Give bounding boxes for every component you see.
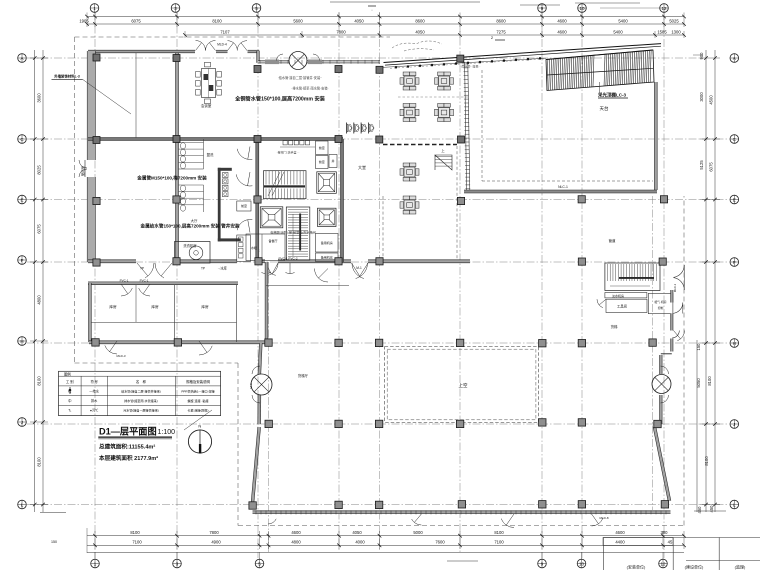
interior step line in hall (266, 285, 349, 287)
turnstile gates (347, 123, 375, 134)
leader from legend to plan (184, 410, 212, 430)
svg-text:工具间: 工具间 (617, 304, 628, 309)
urinal fixtures (223, 173, 229, 197)
svg-text:M-3: M-3 (249, 383, 253, 388)
svg-text:4600: 4600 (557, 30, 567, 35)
svg-text:8025: 8025 (37, 165, 42, 175)
svg-text:总建筑面积:11155.4m²: 总建筑面积:11155.4m² (99, 442, 155, 450)
svg-text:大厅: 大厅 (191, 218, 198, 223)
canopy slanted roof edge lines (380, 44, 661, 68)
svg-text:7100: 7100 (132, 540, 142, 545)
doors in bottom curtain wall (268, 514, 609, 528)
lower hall: right slanted wall (653, 427, 671, 502)
svg-text:M-1: M-1 (356, 266, 362, 270)
svg-text:规格及安装说明: 规格及安装说明 (186, 379, 210, 384)
wall: y=262 south wall of upper block (88, 260, 470, 263)
dining west dashed boundary (382, 196, 384, 260)
storage rooms block walls (88, 282, 265, 344)
right stair room (605, 263, 660, 291)
svg-text:PVC-1 PVC-2: PVC-1 PVC-2 (278, 257, 297, 261)
svg-text:12: 12 (660, 562, 666, 567)
small stage steps (435, 148, 452, 170)
svg-text:10: 10 (579, 562, 585, 567)
glass wall: dining east face with mullions (463, 62, 470, 190)
core toilet fixtures on north wall (280, 141, 315, 148)
svg-text:7600: 7600 (435, 540, 445, 545)
svg-text:前室: 前室 (319, 145, 325, 150)
svg-text:采光顶棚LC-3: 采光顶棚LC-3 (597, 92, 626, 99)
stray sheet lines at top edge (330, 2, 660, 12)
svg-text:暖气·机房: 暖气·机房 (654, 300, 666, 304)
svg-text:·给水管·接自二层·接管井·安装··: ·给水管·接自二层·接管井·安装·· (278, 75, 323, 80)
svg-text:5000: 5000 (413, 530, 423, 535)
svg-text:10: 10 (579, 6, 585, 11)
svg-text:(安装单位): (安装单位) (627, 564, 646, 570)
svg-text:6075: 6075 (131, 18, 141, 23)
grid bubbles: bottom (91, 552, 668, 568)
svg-text:8100: 8100 (37, 457, 42, 467)
svg-text:库房: 库房 (109, 304, 117, 309)
svg-text:4600: 4600 (557, 18, 567, 23)
svg-text:排水: 排水 (91, 398, 98, 403)
columns: row L y=504 (249, 501, 669, 510)
svg-text:·排水管·接至·雨水管·安装·: ·排水管·接至·雨水管·安装· (291, 86, 328, 91)
svg-text:7800: 7800 (209, 530, 219, 535)
svg-text:1585: 1585 (657, 30, 667, 35)
planting dashed arcs above canopy (392, 41, 442, 51)
legend table (59, 371, 221, 415)
svg-text:污水管(接自一层接管接来): 污水管(接自一层接管接来) (123, 408, 159, 413)
svg-text:PPR管热熵1—接口-焊接: PPR管热熵1—接口-焊接 (181, 389, 214, 394)
svg-text:上空: 上空 (459, 382, 468, 388)
bottom right sheet frame lines (40, 513, 760, 570)
svg-text:E: E (20, 197, 23, 202)
grid bubbles: top (90, 4, 668, 13)
elevator 3 (318, 208, 337, 226)
svg-text:MLD-3: MLD-3 (116, 354, 125, 358)
svg-text:H: H (733, 341, 736, 346)
svg-text:备用机房: 备用机房 (321, 240, 333, 245)
core lower-left rooms (246, 234, 285, 261)
svg-text:管道: 管道 (609, 238, 616, 243)
svg-text:TP: TP (140, 267, 144, 271)
svg-text:给水管(接自二层·接管井接来): 给水管(接自二层·接管井接来) (121, 389, 161, 394)
svg-text:8100: 8100 (130, 530, 140, 535)
svg-text:J: J (21, 420, 23, 425)
svg-text:井: 井 (331, 158, 334, 163)
svg-text:前室: 前室 (319, 159, 325, 164)
svg-text:库房: 库房 (151, 304, 159, 309)
door into lower hall from corridor (315, 269, 329, 283)
svg-text:E: E (733, 197, 736, 202)
doors on south wall (137, 263, 368, 279)
svg-text:A: A (20, 56, 23, 61)
svg-text:MLD-1: MLD-1 (673, 283, 677, 292)
dimension chain: top second row (183, 30, 686, 38)
lower hall: right wall segments (660, 355, 663, 424)
svg-text:金属给水管150*100,层高7200mm 安装 管井安装: 金属给水管150*100,层高7200mm 安装 管井安装 (139, 223, 239, 230)
svg-text:4050: 4050 (415, 30, 425, 35)
dashed setback boundary line (75, 37, 685, 526)
wall: left exterior of upper-left block (87, 51, 95, 262)
dashed inner roof line of void (482, 70, 653, 181)
exterior doors on right wall of stair area (661, 265, 685, 354)
columns: row J y=424 (265, 419, 661, 428)
svg-text:天台: 天台 (600, 105, 609, 112)
svg-text:1:100: 1:100 (158, 429, 176, 436)
stair flight upper (horizontal run) (264, 171, 307, 199)
svg-text:金属管M150*100,梅7200mm 安装: 金属管M150*100,梅7200mm 安装 (136, 175, 207, 182)
door arc top right corner (677, 331, 684, 341)
svg-text:(监理): (监理) (735, 564, 746, 570)
svg-text:淡水机房: 淡水机房 (612, 293, 624, 298)
door in left wall (79, 160, 87, 177)
svg-text:5025: 5025 (669, 18, 679, 23)
svg-text:6075: 6075 (709, 162, 714, 172)
svg-text:F: F (21, 258, 24, 263)
dimension chain: right side (693, 50, 720, 514)
svg-text:··雨水管··接至··: ··雨水管··接至·· (460, 64, 481, 69)
svg-text:7275: 7275 (496, 30, 506, 35)
svg-text:电梯厮(消防)·梯·前室·上剂水箱间: 电梯厮(消防)·梯·前室·上剂水箱间 (270, 229, 315, 234)
stair central (vertical run) (286, 207, 310, 260)
svg-text:名 称: 名 称 (136, 379, 147, 384)
svg-text:●污℃: ●污℃ (90, 408, 99, 413)
svg-text:450: 450 (697, 506, 702, 514)
storage room labels (109, 304, 209, 309)
svg-text:NLC-1: NLC-1 (558, 185, 568, 189)
svg-text:1300: 1300 (671, 30, 681, 35)
svg-text:4400: 4400 (615, 540, 625, 545)
svg-text:全铜管水管150*100,层高7200mm 安装: 全铜管水管150*100,层高7200mm 安装 (234, 95, 325, 103)
note text small dotted rows (278, 64, 481, 91)
svg-text:8100: 8100 (37, 376, 42, 386)
svg-text:本层建筑面积 2177.9m²: 本层建筑面积 2177.9m² (99, 454, 158, 462)
svg-text:A: A (733, 56, 736, 61)
area statistics text (99, 442, 158, 462)
svg-text:使用房: 使用房 (80, 165, 85, 176)
front rooms (qianshi) (316, 141, 338, 169)
conference table with chairs (196, 62, 222, 108)
lower hall: left wall upper segment (265, 262, 268, 343)
dining east partition dashed (456, 146, 458, 260)
queue dashed line in dining (398, 96, 468, 98)
svg-text:45: 45 (668, 540, 673, 545)
svg-text:8100: 8100 (494, 530, 504, 535)
svg-text:5050: 5050 (696, 378, 701, 388)
dimension chain: bottom rows (51, 528, 686, 553)
small service rooms (237, 201, 260, 262)
elevator 2 (260, 207, 283, 228)
svg-text:7100: 7100 (494, 540, 504, 545)
doors at core south wall with PVC labels (261, 257, 297, 274)
svg-text:7107: 7107 (220, 30, 230, 35)
svg-text:5400: 5400 (613, 30, 623, 35)
svg-text:PVC-1: PVC-1 (120, 279, 129, 283)
svg-text:·卷帘门·洗手盆···: ·卷帘门·洗手盆··· (277, 150, 300, 155)
svg-text:→冰库: →冰库 (217, 266, 227, 271)
svg-text:7800: 7800 (336, 30, 346, 35)
svg-text:8100: 8100 (707, 376, 712, 386)
svg-text:8100: 8100 (704, 456, 709, 466)
svg-text:4600: 4600 (291, 530, 301, 535)
label leader: exterior finish note (52, 74, 132, 115)
canopy hatched skylight band (546, 50, 654, 93)
svg-text:8600: 8600 (415, 18, 425, 23)
svg-text:900: 900 (699, 52, 704, 60)
section cut mark 2 (491, 35, 505, 40)
svg-text:库房: 库房 (201, 304, 209, 309)
svg-text:4050: 4050 (354, 18, 364, 23)
svg-text:150: 150 (51, 540, 57, 544)
svg-text:货梯厅: 货梯厅 (298, 373, 309, 378)
svg-text:备用机房: 备用机房 (321, 255, 333, 260)
room divider x=136 (135, 53, 137, 138)
wall: axis-3 interior wall (176, 53, 179, 261)
svg-text:5125: 5125 (699, 160, 704, 170)
corridor doors on x=250 (236, 147, 252, 233)
svg-text:MLD-8: MLD-8 (599, 516, 608, 520)
toilet stalls upper group (179, 139, 214, 169)
svg-text:N: N (198, 424, 201, 429)
svg-text:1905: 1905 (79, 18, 89, 23)
wall: bottom of void area / NLC-1 (464, 185, 657, 193)
svg-text:洗衣机房: 洗衣机房 (183, 243, 197, 248)
svg-text:F: F (733, 260, 736, 265)
svg-text:排水管(接至雨·水管接来): 排水管(接至雨·水管接来) (124, 398, 158, 403)
svg-text:3600: 3600 (37, 93, 42, 103)
core: outer walls (256, 139, 344, 262)
svg-text:螺旋 连接 ·粘接: 螺旋 连接 ·粘接 (188, 398, 209, 403)
svg-text:5400: 5400 (618, 18, 628, 23)
revolving door entrance symbol (277, 52, 320, 70)
columns: row E y=199-201 (93, 196, 668, 205)
core lower-right rooms (316, 234, 339, 262)
svg-text:PVC-1: PVC-1 (140, 279, 149, 283)
svg-text:洽谈室: 洽谈室 (201, 103, 212, 108)
svg-text:8600: 8600 (496, 18, 506, 23)
svg-text:D1—层平面图: D1—层平面图 (99, 426, 157, 436)
dining folding partition (dashed) (383, 144, 457, 146)
storage room doors (105, 279, 212, 359)
svg-text:水暖: 水暖 (251, 245, 257, 250)
svg-text:—给水: —给水 (89, 389, 99, 394)
svg-text:4800: 4800 (37, 295, 42, 305)
columns: row F y=262 (93, 258, 666, 266)
dimension chain: left side (30, 50, 48, 512)
svg-text:450: 450 (709, 505, 714, 513)
svg-text:TP: TP (201, 267, 205, 271)
dining tables with chairs (400, 72, 454, 214)
fan coil symbol on right wall (652, 366, 671, 403)
svg-text:货梯: 货梯 (611, 324, 618, 329)
svg-text:符 号: 符 号 (91, 379, 98, 384)
svg-text:卡箍 连接(刚性): 卡箍 连接(刚性) (187, 408, 208, 413)
svg-text:大堂: 大堂 (358, 164, 366, 170)
svg-text:(建设单位): (建设单位) (685, 564, 704, 570)
dimension chain: top row (79, 13, 685, 28)
laundry room with machine (175, 242, 211, 264)
svg-text:12: 12 (661, 6, 667, 11)
fan coil symbol on left wall (249, 366, 272, 403)
svg-text:4500: 4500 (709, 95, 714, 105)
elevator 1 (317, 172, 337, 194)
svg-text:外墙装饰材料L-3: 外墙装饰材料L-3 (54, 74, 80, 79)
svg-text:150: 150 (696, 343, 701, 351)
svg-text:工 别: 工 别 (66, 379, 74, 384)
toilet stalls lower group (179, 185, 204, 223)
lower hall: left wall middle segment (258, 343, 262, 424)
svg-text:H: H (20, 339, 23, 344)
svg-text:4000: 4000 (355, 540, 365, 545)
grid: vertical axis lines (95, 12, 664, 558)
void dashed rectangle (shangkong) (385, 347, 539, 423)
svg-text:4900: 4900 (211, 540, 221, 545)
svg-text:5600: 5600 (293, 18, 303, 23)
title: D1 first floor plan (98, 426, 175, 439)
lower hall: bottom curtain wall (253, 510, 671, 514)
columns: row C y=139 (93, 136, 465, 144)
svg-text:4800: 4800 (291, 540, 301, 545)
wall: top wall jog at axis 5 (257, 51, 260, 63)
canopy dotted setting-out line (390, 57, 545, 68)
labels in lower hall (298, 238, 618, 378)
dark plumbing wall (218, 168, 241, 242)
grid bubbles: left (18, 54, 27, 509)
label for canopy skylight (597, 92, 628, 113)
svg-text:8100: 8100 (212, 18, 222, 23)
rooms under right stair (597, 293, 673, 314)
svg-text:6075: 6075 (37, 224, 42, 234)
svg-text:3000: 3000 (699, 92, 704, 102)
wall: top of upper-left block (88, 50, 259, 53)
double entrance doors on top wall (196, 41, 248, 51)
columns: row H y=343 (92, 339, 657, 347)
grid bubbles: right (730, 54, 739, 509)
north arrow (188, 424, 211, 454)
lower hall: left wall slanted segment (251, 427, 261, 504)
svg-text:4600: 4600 (615, 530, 625, 535)
svg-text:控制: 控制 (658, 306, 664, 310)
svg-text:J: J (733, 422, 735, 427)
svg-text:前室: 前室 (241, 203, 247, 208)
glass wall: entrance north face y=61.5 (258, 60, 380, 65)
grid: horizontal axis lines (27, 58, 729, 505)
svg-text:MLD-4: MLD-4 (217, 43, 227, 47)
core small text row (277, 150, 300, 155)
short terrace line right side (694, 510, 726, 512)
svg-text:备餐厅: 备餐厅 (268, 238, 277, 243)
svg-text:300: 300 (661, 530, 669, 535)
svg-text:盥洗: 盥洗 (207, 152, 214, 157)
wall: y=139 spine wall (88, 138, 343, 141)
wall: right exterior of void area (654, 82, 657, 190)
svg-text:4050: 4050 (352, 530, 362, 535)
columns: grid row A y=58-70 (93, 54, 464, 73)
svg-text:图例: 图例 (64, 372, 71, 377)
